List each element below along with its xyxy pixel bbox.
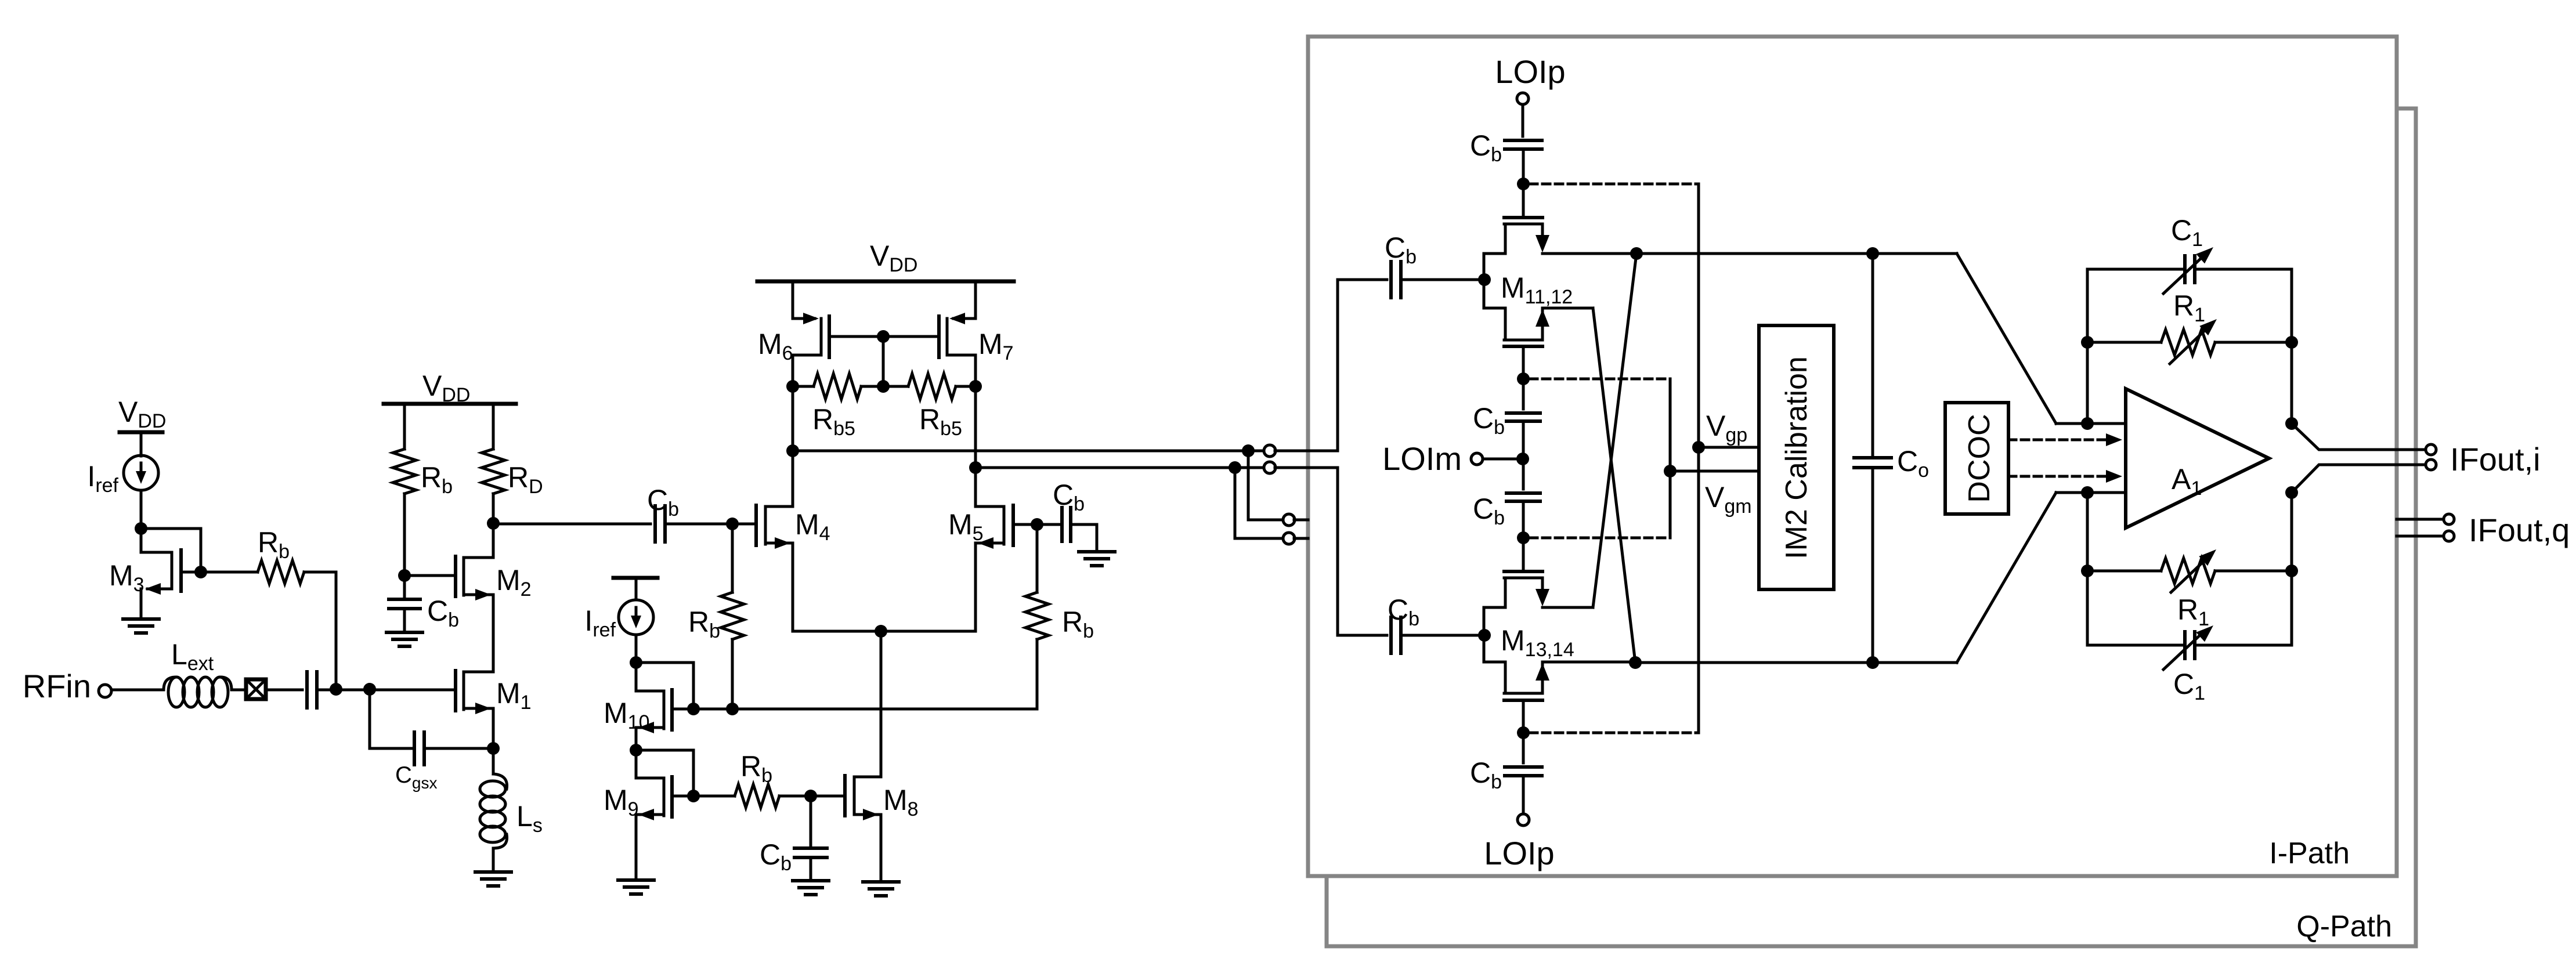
wire — [317, 689, 336, 692]
capacitor Cb (LOIp top) — [1505, 139, 1542, 142]
transistor M9 — [670, 777, 674, 817]
mixer output+ rail — [1636, 252, 1957, 255]
svg-text:LOIp: LOIp — [1484, 835, 1554, 871]
transistor M10 — [670, 690, 674, 730]
M10 diode loop — [636, 663, 693, 709]
node: LNA output — [487, 517, 500, 530]
inductor Ls (source degeneration) — [492, 748, 495, 774]
crossing diagonal B — [1593, 254, 1636, 607]
node: M14 gate — [1517, 726, 1530, 739]
wire M11,12 bottom gate — [1522, 346, 1525, 379]
mixer output- rail — [1635, 661, 1957, 664]
node amp in- / feedback — [2081, 486, 2094, 499]
wire stage2 out- rail — [976, 466, 1265, 469]
wire M3 diode loop — [141, 529, 201, 572]
node: M10 gate — [687, 703, 700, 715]
wire M13,14 bottom gate — [1522, 700, 1525, 733]
wire M1 source node — [492, 708, 495, 748]
resistor R1 (top, variable) — [2161, 330, 2215, 355]
supply bar (Iref2) — [613, 576, 657, 580]
connector circles out+ — [1264, 445, 1276, 457]
IFout,i connector circles — [2426, 444, 2436, 455]
capacitor Cb (mixer RF- input) — [1389, 617, 1393, 653]
node: M12 gate — [1517, 372, 1530, 385]
wire stage2 out+ rail — [793, 450, 1265, 453]
transistor M2 cascode — [404, 574, 456, 577]
node M3 gate junction — [194, 566, 207, 578]
dashed DCOC output 1 — [2008, 439, 2107, 442]
current source Iref (M3 branch) — [124, 455, 158, 490]
node M14 output — [1629, 656, 1642, 669]
wire M10 source to M9 drain — [635, 728, 638, 777]
feedback wire R1 top row — [2087, 341, 2161, 344]
resistor Rb (M3 gate bias) — [201, 571, 258, 574]
wire Vgp — [1699, 446, 1759, 449]
capacitor Cgsx (feedback) — [370, 690, 414, 748]
transistor M7 (PMOS load) — [974, 281, 977, 319]
op-amp A1 — [2126, 389, 2269, 528]
wire — [492, 494, 495, 523]
wire M12 out arm — [1542, 307, 1593, 310]
long bias wire M10 gate to Rb bottoms — [693, 708, 1037, 711]
wire — [140, 490, 143, 552]
dashed gate line to Vgp rail — [1530, 732, 1699, 734]
wire — [266, 689, 302, 692]
svg-text:LOIp: LOIp — [1495, 53, 1565, 90]
resistor Rb (M5 gate bias) — [1036, 524, 1039, 592]
wire amp out- to IFout,i — [2292, 465, 2426, 493]
funnel diagonal bottom — [1957, 493, 2056, 663]
wire M7 branch down — [974, 386, 977, 505]
crossing diagonal A — [1593, 308, 1635, 663]
capacitor Cb (LOIm upper) — [1522, 379, 1525, 409]
dashed gate line M13 to Vgm rail — [1530, 537, 1670, 540]
wire — [492, 848, 495, 872]
resistor Rb5 (left) — [786, 380, 799, 393]
LOIm port — [1516, 453, 1529, 465]
transistor M4 — [754, 505, 758, 545]
wire M14 out arm to rail — [1542, 661, 1635, 664]
IFout,q stubs from Q-path — [2397, 518, 2443, 521]
VDD supply rail (LNA) — [384, 402, 516, 406]
resistor Rb (M8 gate) — [693, 795, 735, 798]
node amp out+ — [2285, 417, 2298, 430]
node: gate tie M6/M7 — [877, 330, 890, 343]
resistor Rb (M4 gate bias) — [731, 524, 734, 592]
wire amp out+ to IFout,i — [2292, 424, 2426, 450]
wire — [403, 494, 406, 576]
wire — [140, 432, 143, 456]
node: Q-tap - — [1229, 461, 1241, 474]
capacitor Cb (mixer RF+ input) — [1389, 262, 1393, 298]
feedback left rail — [2086, 269, 2089, 424]
wire — [112, 689, 164, 692]
node: M13 gate — [1517, 531, 1530, 544]
dashed gate line to Vgm rail — [1530, 378, 1670, 381]
feedback wire C1 top row — [2087, 268, 2183, 271]
capacitor C1 (bottom, variable) — [2183, 632, 2187, 658]
dashed DCOC output 2 — [2008, 475, 2107, 478]
wire RF+ into mixer — [1338, 280, 1387, 451]
ground (Ls) — [475, 870, 511, 874]
wire M13 out arm — [1542, 606, 1593, 609]
ground (Cb M5) — [1079, 550, 1115, 553]
Q-Path block box — [1327, 108, 2416, 946]
feedback wire R1 bottom row — [2087, 570, 2161, 573]
capacitor Cb (LOIp bottom) — [1522, 733, 1525, 763]
capacitor Cb (M8 gate) — [810, 796, 812, 846]
funnel diagonal top — [1957, 254, 2056, 424]
svg-text:DCOC: DCOC — [1963, 414, 1996, 502]
DCOC block — [1945, 403, 2008, 514]
VDD supply rail (M3 branch) — [120, 430, 162, 435]
node: M5 gate — [1031, 518, 1043, 531]
wire — [403, 404, 406, 449]
ground (M9) — [618, 878, 654, 882]
wire — [492, 404, 495, 449]
node B (Cgsx tap) — [363, 683, 376, 696]
node: output- tap — [969, 461, 982, 474]
Q-path tap - wire — [1235, 468, 1284, 538]
wire M5 gate — [1013, 523, 1037, 526]
capacitor Cb (LOIm lower) — [1522, 459, 1525, 489]
resistor R1 (bottom, variable) — [2161, 558, 2215, 584]
wire — [665, 523, 732, 526]
node A (RF bias tap) — [330, 683, 342, 696]
svg-text:I-Path: I-Path — [2269, 837, 2350, 870]
node: Q-tap + — [1242, 444, 1255, 457]
node: M3 drain-gate tie — [135, 522, 147, 535]
transistor M6 (PMOS load) — [792, 281, 794, 319]
bond pad (box-X) — [246, 679, 266, 699]
feedback wire C1 bottom row — [2087, 644, 2183, 647]
wire — [232, 689, 245, 692]
node: M11 gate — [1517, 178, 1530, 190]
feedback right rail — [2290, 269, 2293, 424]
svg-text:LOIm: LOIm — [1382, 440, 1462, 477]
coupling capacitor (RF input) — [305, 672, 309, 708]
dashed gate line to Vgp rail — [1530, 183, 1699, 186]
resistor Rb5 (right) — [969, 380, 982, 393]
wire — [635, 815, 638, 880]
mixer quad M11,12 — [1522, 184, 1525, 218]
LNA output wire to stage2 — [493, 523, 651, 526]
wire M11 out arm to rail — [1542, 252, 1636, 255]
wire Vgm — [1670, 470, 1759, 473]
svg-text:RFin: RFin — [23, 668, 91, 704]
node: M9 gate — [687, 790, 700, 802]
node: M2 gate / Cb — [398, 569, 411, 582]
current source Iref (stage2) — [619, 600, 653, 635]
node: M8 gate / Cb — [804, 790, 817, 802]
connector circle out- — [1264, 462, 1276, 473]
node amp out- — [2285, 486, 2298, 499]
wire — [732, 523, 756, 526]
wire M6 branch down — [792, 386, 794, 505]
capacitor Cb (M2 gate decouple) — [403, 576, 406, 599]
transistor M8 (tail source) — [880, 631, 883, 776]
capacitor Cb (M5 gate ac-ground) — [1037, 523, 1061, 526]
node: M4 gate — [726, 518, 739, 530]
resistor RD (LNA load) — [482, 449, 505, 494]
M9 diode loop — [636, 750, 693, 796]
IM2 Calibration block — [1759, 325, 1834, 589]
tail wire — [793, 630, 976, 633]
capacitor C1 (top, variable) — [2183, 256, 2187, 283]
I-Path block box — [1308, 37, 2397, 876]
ground (M8) — [863, 880, 899, 884]
ground (Cb M8) — [793, 879, 829, 882]
svg-text:Q-Path: Q-Path — [2296, 910, 2392, 943]
wire Rb to RF input node — [335, 572, 338, 689]
node: M9 drain — [630, 744, 642, 757]
Vgm rail — [1669, 379, 1672, 538]
node M11 output — [1630, 247, 1643, 260]
ground (Cb M2) — [386, 631, 422, 634]
node Rb5 center — [877, 380, 890, 393]
transistor M5 — [1011, 505, 1015, 545]
svg-text:IFout,q: IFout,q — [2469, 512, 2570, 548]
capacitor Cb (coupling to M4) — [653, 506, 657, 542]
LOIp port (bottom) — [1518, 814, 1529, 826]
VDD supply rail (stage2) — [757, 280, 1014, 284]
node: M10 drain — [630, 656, 642, 669]
svg-text:IM2 Calibration: IM2 Calibration — [1780, 356, 1813, 559]
Vgp rail — [1697, 184, 1700, 733]
capacitor Co — [1866, 247, 1879, 260]
wire M2 source to M1 drain — [492, 595, 495, 672]
node: output+ tap — [786, 444, 799, 457]
wire to M1 gate — [370, 689, 456, 692]
node amp in+ / feedback — [2081, 417, 2094, 430]
wire — [336, 689, 370, 692]
transistor M1 input device — [454, 671, 457, 711]
mixer quad M13,14 — [1522, 538, 1525, 571]
svg-text:IFout,i: IFout,i — [2450, 441, 2541, 477]
resistor Rb (LNA gate bias) — [393, 449, 416, 494]
transistor M3 — [141, 551, 172, 554]
wire RF- into mixer — [1338, 468, 1387, 635]
Q-path tap + wire — [1248, 451, 1284, 520]
ground (M3) — [123, 617, 159, 621]
